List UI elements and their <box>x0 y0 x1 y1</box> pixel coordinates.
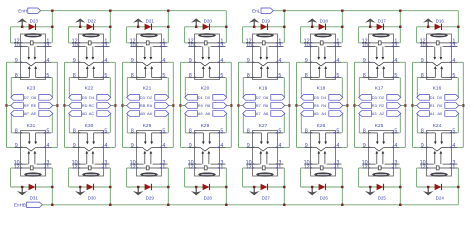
svg-text:A8: A8 <box>205 111 210 116</box>
column 7: relays K17/K25 <box>353 11 406 205</box>
svg-text:RB: RB <box>140 103 146 108</box>
svg-text:R1: R1 <box>430 103 435 108</box>
svg-text:D5: D5 <box>314 95 319 100</box>
svg-text:K30: K30 <box>85 123 94 129</box>
svg-text:D0: D0 <box>205 95 211 100</box>
junction on EnHB bus <box>399 204 401 206</box>
svg-text:EnHB: EnHB <box>14 203 26 208</box>
junction on En bus <box>283 10 285 12</box>
svg-text:A0: A0 <box>437 111 443 116</box>
svg-text:R7: R7 <box>256 103 261 108</box>
svg-text:A1: A1 <box>430 111 435 116</box>
svg-text:RE: RE <box>31 103 37 108</box>
svg-text:EnH: EnH <box>18 8 27 13</box>
svg-text:AF: AF <box>24 111 30 116</box>
svg-text:A4: A4 <box>321 111 327 116</box>
svg-text:K22: K22 <box>85 86 94 92</box>
svg-text:D27: D27 <box>262 195 271 200</box>
svg-text:A2: A2 <box>379 111 384 116</box>
svg-text:A3: A3 <box>372 111 377 116</box>
svg-text:D17: D17 <box>378 18 387 23</box>
svg-text:D29: D29 <box>146 195 155 200</box>
svg-text:K17: K17 <box>375 86 384 92</box>
svg-text:AC: AC <box>89 111 95 116</box>
junction on EnHB bus <box>51 204 53 206</box>
svg-text:D30: D30 <box>88 195 97 200</box>
svg-text:D21: D21 <box>146 18 155 23</box>
svg-text:D1: D1 <box>430 95 435 100</box>
svg-text:D26: D26 <box>320 195 329 200</box>
column 3: relays K21/K29 <box>121 11 174 205</box>
wire EnL bus <box>273 10 458 12</box>
svg-text:D3: D3 <box>140 95 145 100</box>
wire EnHB bus <box>42 204 458 206</box>
svg-text:R6: R6 <box>263 103 268 108</box>
svg-text:RC: RC <box>89 103 95 108</box>
svg-text:A6: A6 <box>263 111 268 116</box>
column 6: relays K18/K26 <box>295 11 348 205</box>
junction on En bus <box>341 10 343 12</box>
svg-text:RA: RA <box>147 103 153 108</box>
column 1: relays K23/K31 <box>5 11 58 205</box>
svg-text:D2: D2 <box>379 95 384 100</box>
svg-text:D22: D22 <box>88 18 97 23</box>
svg-text:D24: D24 <box>436 195 445 200</box>
svg-text:K16: K16 <box>433 86 442 92</box>
svg-text:D6: D6 <box>31 95 36 100</box>
svg-text:R5: R5 <box>314 103 319 108</box>
svg-text:K20: K20 <box>201 86 210 92</box>
svg-text:K31: K31 <box>27 123 36 129</box>
svg-text:D4: D4 <box>89 95 95 100</box>
junction on En bus <box>167 10 169 12</box>
svg-text:D20: D20 <box>204 18 213 23</box>
svg-text:R0: R0 <box>437 103 443 108</box>
svg-text:D31: D31 <box>30 195 39 200</box>
junction on En bus <box>109 10 111 12</box>
wire EnH bus <box>41 10 227 12</box>
svg-text:A7: A7 <box>256 111 261 116</box>
junction on En bus <box>51 10 53 12</box>
svg-text:AE: AE <box>31 111 37 116</box>
column 5: relays K19/K27 <box>237 11 290 205</box>
junction on EnHB bus <box>225 204 227 206</box>
svg-text:EnL: EnL <box>252 8 261 13</box>
svg-text:K24: K24 <box>433 123 442 129</box>
junction on EnHB bus <box>109 204 111 206</box>
junction on EnHB bus <box>341 204 343 206</box>
svg-text:D25: D25 <box>378 195 387 200</box>
svg-text:R4: R4 <box>321 103 327 108</box>
svg-text:K28: K28 <box>201 123 210 129</box>
column 4: relays K20/K28 <box>179 11 232 205</box>
svg-text:D16: D16 <box>436 18 445 23</box>
svg-text:K26: K26 <box>317 123 326 129</box>
svg-text:D0: D0 <box>437 95 443 100</box>
column 2: relays K22/K30 <box>63 11 116 205</box>
svg-text:RF: RF <box>24 103 30 108</box>
svg-text:D7: D7 <box>256 95 261 100</box>
svg-text:K23: K23 <box>27 86 36 92</box>
svg-text:D7: D7 <box>24 95 29 100</box>
junction on EnHB bus <box>283 204 285 206</box>
svg-text:D4: D4 <box>321 95 327 100</box>
svg-text:K29: K29 <box>143 123 152 129</box>
svg-text:AD: AD <box>82 111 88 116</box>
svg-text:R8: R8 <box>205 103 210 108</box>
svg-text:D2: D2 <box>147 95 152 100</box>
svg-text:K21: K21 <box>143 86 152 92</box>
svg-text:RD: RD <box>82 103 88 108</box>
svg-text:K27: K27 <box>259 123 268 129</box>
svg-text:D6: D6 <box>263 95 268 100</box>
svg-text:K25: K25 <box>375 123 384 129</box>
svg-text:AB: AB <box>140 111 146 116</box>
svg-text:K18: K18 <box>317 86 326 92</box>
svg-text:K19: K19 <box>259 86 268 92</box>
svg-text:D18: D18 <box>320 18 329 23</box>
svg-text:A9: A9 <box>198 111 203 116</box>
junction on EnHB bus <box>167 204 169 206</box>
svg-text:D23: D23 <box>30 18 39 23</box>
column 8: relays K16/K24 <box>411 11 464 205</box>
svg-text:D28: D28 <box>204 195 213 200</box>
svg-text:D3: D3 <box>372 95 377 100</box>
svg-text:D5: D5 <box>82 95 87 100</box>
svg-text:R2: R2 <box>379 103 384 108</box>
junction on En bus <box>399 10 401 12</box>
svg-text:R3: R3 <box>372 103 377 108</box>
svg-text:D19: D19 <box>262 18 271 23</box>
svg-text:R9: R9 <box>198 103 203 108</box>
svg-text:D1: D1 <box>198 95 203 100</box>
svg-text:AA: AA <box>147 111 153 116</box>
svg-text:A5: A5 <box>314 111 319 116</box>
